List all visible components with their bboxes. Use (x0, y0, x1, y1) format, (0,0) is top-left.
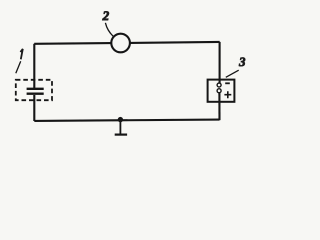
junction dot at ground tap (118, 117, 123, 122)
wire left vertical (bottom part) (33, 95, 35, 121)
capacitor C1 top plate (27, 88, 44, 90)
ground bar (115, 134, 127, 136)
capacitor C1 bottom plate (27, 92, 44, 94)
terminal pin circle (minus) (217, 83, 221, 87)
ground stem (119, 120, 121, 134)
wire right vertical (top part) (219, 42, 221, 83)
lamp/meter 2 (circle) (111, 34, 130, 53)
capacitor C1 dashed enclosure (16, 80, 52, 100)
wire left vertical (top part) (33, 44, 35, 89)
plus sign label (224, 91, 231, 98)
label 3 (239, 58, 245, 67)
minus sign label (225, 82, 230, 84)
component 3 box (terminal block) (208, 80, 235, 102)
leader line to label 2 (105, 23, 113, 37)
wire top-right horizontal segment (130, 42, 220, 43)
label 1 (20, 49, 22, 59)
leader line to label 1 (16, 61, 21, 73)
wire bottom horizontal (34, 120, 219, 121)
wire right vertical (bottom part) (218, 93, 220, 121)
terminal pin circle (plus) (217, 89, 221, 93)
label 2 (102, 11, 108, 20)
wire top-left horizontal segment (34, 42, 111, 45)
leader line to label 3 (226, 70, 239, 77)
